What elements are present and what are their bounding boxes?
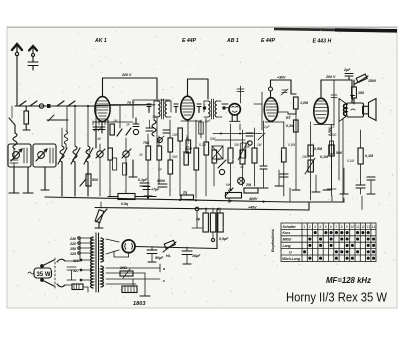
svg-text:0,1M: 0,1M	[365, 154, 374, 158]
svg-text:400V: 400V	[248, 197, 258, 201]
svg-text:Milch-Lang: Milch-Lang	[282, 257, 301, 261]
svg-text:14: 14	[372, 225, 376, 229]
padder trimmers row	[96, 141, 162, 160]
resistor 0.5q horizontal	[108, 194, 156, 207]
scan dark band top right	[274, 28, 397, 33]
svg-text:+40V: +40V	[248, 206, 257, 210]
bus risers right	[290, 188, 344, 202]
V1 pin bus	[93, 121, 133, 123]
ground mid 1	[129, 160, 137, 177]
svg-text:50K: 50K	[210, 137, 217, 141]
hum pot 20ohm	[119, 266, 133, 278]
svg-text:AK 1: AK 1	[94, 38, 107, 44]
plug separation dashed	[54, 258, 56, 288]
svg-text:0,5M: 0,5M	[314, 147, 323, 151]
svg-text:1M: 1M	[113, 119, 118, 123]
tube V1 AK1	[95, 92, 110, 122]
svg-text:0,1: 0,1	[86, 149, 91, 153]
svg-text:200 V: 200 V	[121, 73, 132, 77]
resistors mid column	[168, 120, 173, 196]
svg-text:300: 300	[234, 143, 240, 147]
svg-text:HL: HL	[166, 254, 171, 258]
svg-text:9: 9	[346, 225, 348, 229]
mains switch hooks	[57, 259, 80, 287]
coil L2 variable	[58, 128, 67, 164]
junction dot	[47, 104, 50, 108]
svg-text:5000: 5000	[157, 179, 165, 183]
tuning gang box 2	[33, 144, 56, 167]
svg-text:1M: 1M	[257, 143, 262, 147]
DC output wire	[135, 210, 217, 249]
settings table	[281, 223, 376, 262]
speaker driver and cone	[363, 99, 376, 121]
V2 pin bus	[181, 120, 201, 122]
svg-text:+30V: +30V	[277, 76, 286, 80]
oscillator coil	[152, 112, 156, 136]
power transformer	[91, 233, 104, 292]
switch S1a	[19, 101, 26, 106]
resistor 500 box with switch	[80, 174, 98, 186]
resistors right of V1 stage	[178, 120, 199, 198]
svg-text:7: 7	[335, 225, 337, 229]
switch S2 left	[9, 118, 15, 125]
detector bus wires	[213, 133, 262, 141]
anode supply wire 200V stage1	[103, 73, 158, 99]
resistor R ant	[24, 111, 29, 124]
svg-text:AB 1: AB 1	[226, 38, 239, 44]
svg-text:a: a	[163, 267, 165, 271]
svg-text:5: 5	[325, 225, 327, 229]
V4 grid cap	[269, 76, 297, 98]
svg-text:8: 8	[341, 225, 343, 229]
resistor 2q horizontal	[181, 191, 194, 200]
V1 pin extra wires	[93, 121, 105, 125]
svg-text:Schalter: Schalter	[283, 225, 297, 229]
cap + switch row under V1	[126, 118, 139, 135]
antenna 2	[28, 46, 38, 70]
svg-text:2q: 2q	[182, 191, 188, 195]
resistor 2K horizontal	[226, 188, 242, 198]
table dots	[303, 231, 375, 260]
svg-text:O: O	[289, 250, 292, 254]
svg-text:E 443 H: E 443 H	[313, 39, 332, 45]
svg-text:50K: 50K	[172, 155, 179, 159]
ground bottom	[133, 273, 150, 296]
oscillator coil L1b	[64, 131, 68, 148]
svg-text:z: z	[162, 279, 165, 283]
speaker output transformer	[339, 95, 364, 122]
electrolytic 7uF	[143, 187, 160, 192]
bus junction dots	[147, 196, 265, 210]
svg-text:0,3M: 0,3M	[286, 124, 295, 128]
svg-text:4µ: 4µ	[195, 217, 200, 221]
antenna 1	[12, 44, 22, 106]
extra caps row stage1	[146, 120, 170, 143]
coupling coil circle	[39, 104, 43, 108]
svg-text:2µF: 2µF	[263, 125, 271, 129]
svg-text:200 V: 200 V	[325, 75, 336, 79]
svg-text:1: 1	[304, 225, 306, 229]
svg-text:0,1M: 0,1M	[320, 155, 329, 159]
200V wire to speaker	[321, 75, 352, 103]
ground left 3	[41, 167, 49, 190]
switch S1d	[68, 101, 75, 106]
page top edge line	[7, 26, 397, 28]
bus wire 400V	[45, 197, 290, 202]
svg-text:Horny II/3 Rex 35 W: Horny II/3 Rex 35 W	[286, 290, 388, 305]
svg-text:10: 10	[351, 225, 355, 229]
svg-text:16µF: 16µF	[192, 254, 201, 258]
svg-text:E 44P: E 44P	[182, 38, 197, 44]
svg-text:MF=128 kHz: MF=128 kHz	[326, 275, 372, 285]
svg-text:2500: 2500	[301, 155, 309, 159]
cap 0.05 mid	[157, 179, 167, 187]
V4 cathode column	[280, 122, 288, 196]
svg-text:11: 11	[356, 225, 360, 229]
svg-text:220: 220	[69, 242, 76, 246]
IFT1 secondary return wire	[156, 118, 158, 146]
heater winding wires	[106, 264, 165, 284]
tuning gang box 1	[8, 144, 31, 167]
svg-text:30: 30	[139, 153, 143, 157]
tube V4 E44P	[264, 98, 278, 122]
mid-right resistor column B	[305, 122, 323, 200]
svg-text:150: 150	[70, 247, 76, 251]
scattered tiny value labels	[86, 115, 354, 187]
lamp circle	[238, 178, 245, 185]
fuse 2	[122, 286, 137, 293]
tube V2 E44P	[181, 79, 195, 120]
svg-text:2µ: 2µ	[157, 167, 162, 171]
svg-text:3: 3	[314, 225, 316, 229]
svg-text:2K: 2K	[227, 188, 233, 192]
svg-text:10K: 10K	[172, 133, 179, 137]
volume potentiometer	[95, 202, 107, 228]
V5 pin bus	[314, 124, 334, 126]
svg-text:0,2M: 0,2M	[199, 143, 206, 147]
svg-text:1500: 1500	[368, 79, 376, 83]
caps between V3 V4	[246, 121, 268, 188]
anode wire stage2	[188, 79, 209, 99]
svg-text:0,5: 0,5	[330, 125, 335, 129]
pot with switch mid	[225, 188, 233, 203]
svg-text:500: 500	[92, 178, 98, 182]
resistor column under V2 left	[199, 120, 203, 138]
svg-text:20Ω: 20Ω	[119, 266, 127, 270]
crossed box component	[212, 146, 223, 159]
rectifier tube	[106, 239, 135, 257]
mains plug 35W	[28, 260, 54, 286]
svg-text:150: 150	[358, 91, 364, 95]
small resistors mid	[113, 158, 127, 175]
svg-text:6: 6	[330, 225, 332, 229]
speaker return wires	[327, 118, 343, 202]
heater bus line	[95, 106, 97, 121]
scan speckle texture	[11, 29, 395, 306]
mid-right resistor column A	[286, 114, 298, 190]
resistor 2M horizontal	[244, 183, 258, 193]
svg-text:50µF: 50µF	[155, 256, 164, 260]
svg-text:E 44P: E 44P	[261, 38, 276, 44]
ground left 1	[9, 167, 19, 193]
svg-text:75K: 75K	[143, 141, 150, 145]
svg-text:0,3M: 0,3M	[185, 147, 192, 151]
mains caps	[67, 267, 76, 280]
wire top of transformer to switch	[79, 238, 81, 261]
svg-text:500: 500	[331, 133, 337, 137]
tube V3 AB1 round	[203, 104, 241, 122]
coil L3 variable	[71, 106, 80, 164]
resistor 10M right	[286, 97, 309, 120]
drops from pots to ground bus	[100, 134, 159, 196]
cap 2uF top right	[343, 68, 353, 80]
AB1 riser wire	[237, 86, 244, 103]
grounds mid right	[275, 168, 348, 194]
svg-text:+7µF: +7µF	[151, 188, 160, 192]
svg-text:125: 125	[70, 252, 77, 256]
svg-text:Lang: Lang	[283, 244, 292, 248]
svg-text:Empfindlichk.: Empfindlichk.	[271, 228, 275, 252]
V1 pin components row	[93, 120, 122, 148]
mains fuse	[72, 284, 88, 292]
V4 pin bus	[265, 121, 284, 123]
stage1 link wire	[110, 104, 150, 106]
antenna input wire	[15, 105, 96, 107]
svg-text:240: 240	[69, 237, 76, 241]
svg-text:0,5q: 0,5q	[121, 202, 129, 206]
transformer taps	[69, 237, 93, 282]
svg-text:RT: RT	[286, 116, 292, 120]
pot resistor with arrow	[238, 141, 248, 160]
electrolytic cap block	[192, 207, 229, 241]
coil L4 variable	[84, 106, 93, 164]
svg-text:4: 4	[319, 225, 321, 229]
cap 0.1uF mid	[138, 178, 149, 186]
filter cap 16uF	[182, 247, 201, 264]
IF transformer T1	[147, 99, 178, 119]
wire gang to ground bus	[61, 162, 63, 196]
pot HL	[163, 240, 176, 258]
svg-text:0,1M: 0,1M	[347, 159, 354, 163]
left edge caps	[10, 149, 18, 167]
IF transformer T2	[197, 99, 228, 119]
left coil L1	[13, 133, 17, 149]
svg-text:2: 2	[309, 225, 311, 229]
components under V2	[186, 118, 226, 196]
svg-text:0,5M: 0,5M	[288, 143, 295, 147]
band switch wire	[47, 106, 68, 131]
potentiometer 1500 top right	[355, 74, 376, 84]
switch S1b	[30, 101, 37, 106]
ground mid 2	[144, 186, 152, 196]
svg-text:Mittel: Mittel	[283, 238, 292, 242]
svg-text:13: 13	[367, 225, 371, 229]
svg-text:Kurz: Kurz	[283, 231, 291, 235]
svg-text:70K: 70K	[152, 115, 159, 119]
switch S1c	[57, 101, 64, 106]
svg-text:1,0M: 1,0M	[300, 101, 309, 105]
svg-text:0,1µF: 0,1µF	[138, 178, 148, 182]
resistor 150	[352, 80, 364, 104]
svg-text:1803: 1803	[133, 301, 146, 307]
mid-right resistor column C	[320, 92, 342, 196]
mid-right resistor column D	[356, 130, 374, 194]
svg-text:12: 12	[361, 225, 365, 229]
vertical long wires center	[120, 80, 334, 130]
svg-text:2M: 2M	[245, 183, 252, 187]
right lower wires	[362, 177, 375, 210]
bus wire +40V	[95, 202, 309, 210]
svg-text:2µF: 2µF	[343, 68, 351, 72]
svg-text:35 W: 35 W	[37, 272, 51, 278]
svg-text:0,5µF: 0,5µF	[219, 237, 229, 241]
tube V5 E443H	[314, 80, 328, 124]
caps under V3	[228, 124, 257, 190]
ground left 2	[23, 167, 33, 193]
filter cap 50uF	[147, 247, 164, 262]
